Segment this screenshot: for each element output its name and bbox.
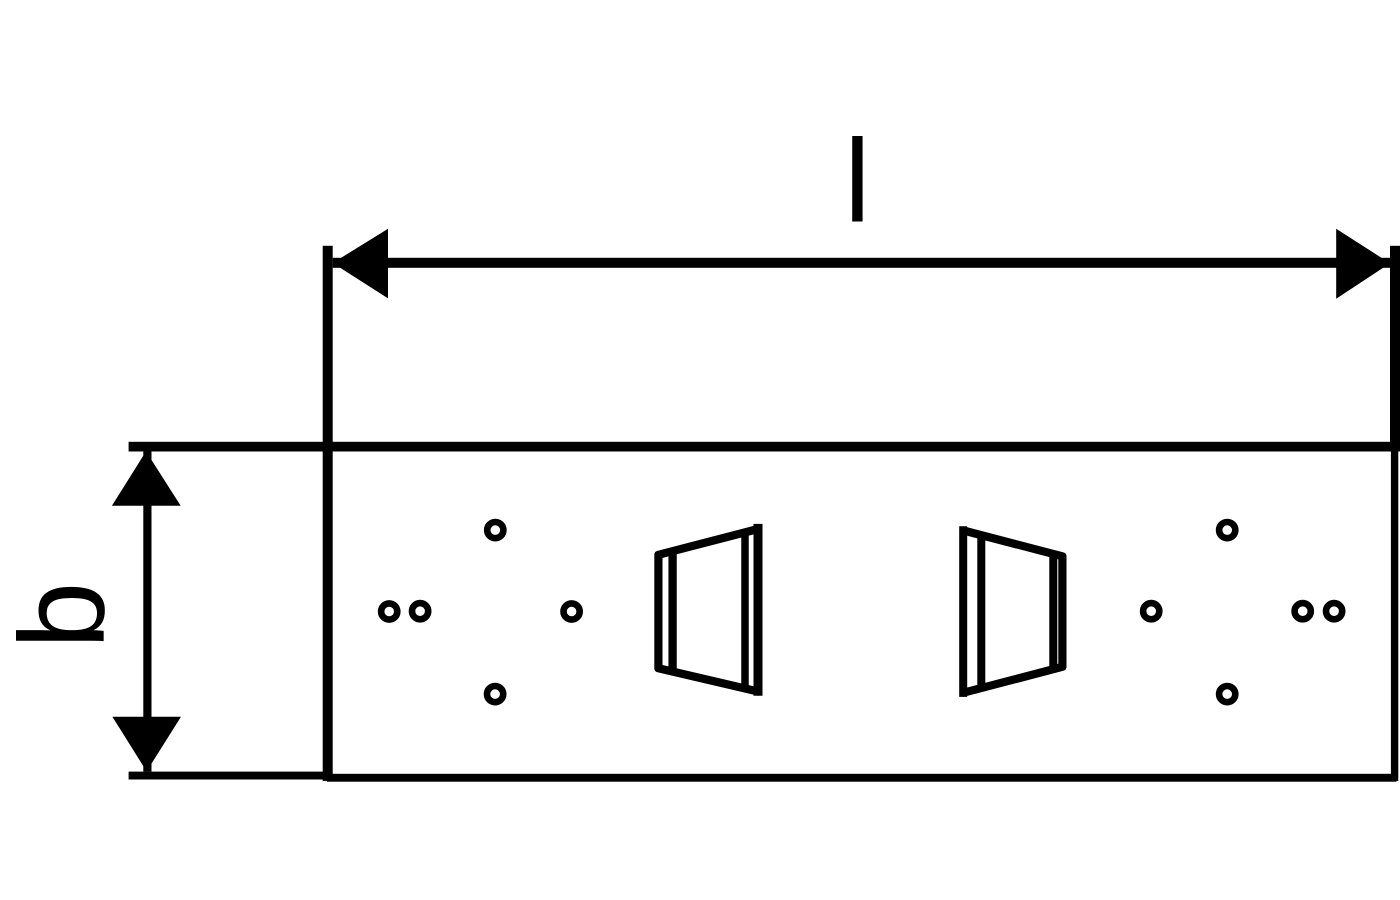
wire bottom edge of plate <box>327 774 1397 782</box>
node b dimension line <box>143 451 151 771</box>
node hole left group left-pair-2 <box>412 603 428 619</box>
node hole right group right-pair-2 <box>1326 603 1342 619</box>
wire bottom extension line (left of plate) <box>129 772 327 780</box>
node b down arrowhead <box>112 717 181 772</box>
node hole left group right <box>564 603 580 619</box>
wire right edge of plate lower part <box>1391 451 1398 781</box>
node left claw outline (short left side, slants) <box>658 529 758 692</box>
node hole left group top <box>487 522 503 538</box>
wire left edge of plate / extension line <box>323 246 333 781</box>
node right claw inner right line <box>1049 555 1057 666</box>
node hole right group right-pair-1 <box>1295 603 1311 619</box>
node left claw tall right side <box>754 524 763 696</box>
wire right edge of plate / extension line <box>1390 246 1400 452</box>
node hole left group bottom <box>487 686 503 702</box>
node left claw inner left line <box>668 552 676 670</box>
node right claw tall left side <box>959 526 967 697</box>
node l right arrowhead <box>1336 229 1390 299</box>
node hole left group left-pair-1 <box>381 603 397 619</box>
node l left arrowhead <box>333 229 388 299</box>
node left claw inner right line <box>741 533 749 687</box>
svg-text:b: b <box>0 582 129 649</box>
node l dimension line <box>333 258 1391 268</box>
node hole right group top <box>1219 522 1235 538</box>
node hole right group left <box>1143 603 1159 619</box>
wire top edge of plate with left extension <box>129 442 1398 452</box>
node b up arrowhead <box>112 451 181 505</box>
node right claw outline (short right side, slants) <box>964 531 1063 693</box>
svg-text:l: l <box>844 115 870 247</box>
node right claw inner left line <box>977 535 985 690</box>
node hole right group bottom <box>1219 686 1235 702</box>
